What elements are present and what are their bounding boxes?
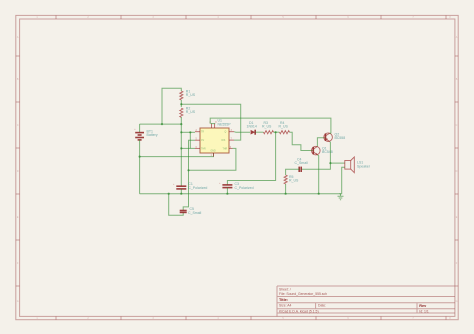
frame zone ticks left [16, 56, 20, 286]
svg-text:BC558: BC558 [335, 136, 346, 140]
svg-text:R_US: R_US [279, 124, 289, 128]
svg-text:R_US: R_US [289, 179, 299, 183]
transistor Q1 BC548 [312, 146, 333, 155]
wire battery minus down to ground rail [139, 140, 141, 194]
pin 7 DIS [229, 139, 234, 141]
svg-text:D: D [456, 170, 458, 173]
node junction TR/THR tie [189, 131, 191, 133]
wire R2 bottom through VCC rail down to C1 [180, 117, 182, 186]
wire up-left loop to R1 top [162, 88, 181, 124]
node junction Q2 emitter / speaker / C4 [329, 162, 331, 164]
svg-text:Id: 1/1: Id: 1/1 [419, 309, 429, 313]
pin 1 GND [213, 153, 215, 157]
resistor R5 [284, 175, 287, 184]
op-amp U1 555 timer body [200, 119, 231, 154]
svg-text:KiCad E.D.A. kicad (5.1.5): KiCad E.D.A. kicad (5.1.5) [279, 309, 319, 313]
svg-text:G: G [456, 300, 458, 303]
resistor R1 [180, 91, 183, 100]
resistor R2 [180, 108, 183, 117]
wire Q2 collector up to VCC line (drawn in VCC path) [330, 132, 331, 134]
svg-text:BC548: BC548 [322, 150, 333, 154]
svg-text:GND: GND [211, 151, 216, 153]
svg-text:Battery: Battery [147, 133, 158, 137]
title block box lines [277, 286, 455, 316]
svg-text:R_US: R_US [186, 93, 196, 97]
svg-text:THR: THR [201, 148, 206, 150]
wire THR net from C1 vertical to pin 6 [181, 147, 195, 149]
resistor R4 [280, 131, 290, 134]
wire Q1 collector up to Q2 base [317, 138, 325, 147]
node junction R2/rail [180, 123, 182, 125]
svg-text:C: C [456, 124, 458, 127]
pin 3 Q [229, 131, 234, 133]
wire speaker lower pin down to rail end [340, 167, 345, 193]
svg-text:C_Polarized: C_Polarized [235, 186, 254, 190]
battery BT1 [134, 124, 158, 140]
svg-text:C_Small: C_Small [295, 161, 308, 165]
wire pin 3 output to diode [234, 131, 250, 134]
wire right THR pin down loop to CV vertical [189, 148, 236, 170]
node junction R3/R4 [275, 131, 277, 133]
wire R3/R4 junction down and left to C2 [227, 132, 275, 184]
svg-text:C_Polarized: C_Polarized [188, 186, 207, 190]
wire R1/R2 junction to DIS pin 7 [181, 104, 240, 140]
wire CV pin 5 left then down to C5 [183, 140, 195, 210]
wire R3 to R4 [274, 131, 280, 133]
pin 6 THR right [229, 147, 233, 149]
node junction THR on C1 vertical [180, 147, 182, 149]
node junction TR on C1 vertical [180, 131, 182, 133]
wire C4 left to R5 top [286, 169, 300, 175]
wire Q1 emitter down to ground rail [318, 155, 319, 194]
wire R5 bottom to ground rail [285, 184, 287, 194]
pin 5 CV [195, 139, 200, 141]
wire C5 loop from rail down-around [169, 194, 184, 216]
wire C2 bottom to rail [226, 188, 228, 194]
node junction rail/Q1 emitter [318, 193, 320, 195]
svg-text:NE555P: NE555P [218, 123, 232, 127]
wire GND from pin1 to battery minus [140, 153, 214, 157]
node junction rail/R5 [285, 193, 287, 195]
svg-text:R_US: R_US [186, 110, 196, 114]
speaker LS1 [345, 157, 371, 173]
ground symbol [338, 194, 344, 200]
pin 4 R top [211, 124, 213, 129]
node junction rail/C1 [180, 193, 182, 195]
svg-text:File: Sound_Generator_555.sch: File: Sound_Generator_555.sch [279, 292, 327, 296]
svg-text:Title:: Title: [279, 298, 288, 302]
wire Q2 emitter down to speaker node [329, 142, 332, 164]
wire R4 staircase to Q1 base [290, 132, 314, 150]
pin 2 TR [195, 131, 200, 133]
wire C1 bottom to rail [180, 189, 182, 194]
pin 6 THR [195, 147, 200, 149]
svg-text:Speaker: Speaker [357, 164, 371, 168]
node junction R1/R2 [180, 103, 182, 105]
svg-text:Size: A4: Size: A4 [279, 304, 292, 308]
transistor Q2 BC558 [324, 133, 345, 142]
wire VCC rail from battery to R2 bottom [140, 123, 182, 125]
wire C4 branch down from node [301, 163, 330, 169]
capacitor C2 C_Polarized [219, 182, 254, 190]
svg-text:1N914: 1N914 [247, 124, 257, 128]
svg-text:Rev: Rev [419, 304, 427, 308]
capacitor C5 C_Small [180, 207, 202, 215]
wire R1 bottom to junction [180, 100, 182, 107]
wire node to speaker upper pin [330, 162, 344, 164]
resistor R3 [264, 131, 274, 134]
node junction VCC rail / R1 loop [161, 123, 163, 125]
wire VCC top line from IC pins 4/8 to Q2 collector [210, 118, 331, 133]
svg-text:C: C [17, 124, 19, 127]
node junction battery / gnd wire [139, 156, 141, 158]
node junction rail/C2 [226, 193, 228, 195]
svg-text:R_US: R_US [262, 124, 272, 128]
frame zone ticks bottom [56, 316, 446, 319]
node junction CV/DIS loop [187, 169, 189, 171]
svg-text:THR: THR [223, 148, 228, 150]
wire TR net from C1 vertical to pin 2 [181, 131, 195, 133]
svg-text:Date:: Date: [318, 304, 326, 308]
node junction rail/C5 loop [168, 193, 170, 195]
ground rail [140, 193, 341, 195]
frame zone ticks top [56, 15, 446, 19]
svg-text:TR: TR [201, 132, 204, 134]
diode D1 1N914 [247, 121, 257, 135]
pin 8 VCC top [214, 124, 216, 129]
frame zone ticks right [455, 56, 458, 286]
svg-text:C_Small: C_Small [188, 211, 201, 215]
wire diode to R3 [255, 131, 263, 133]
capacitor C1 C_Polarized [173, 182, 207, 190]
svg-text:D: D [17, 170, 19, 173]
wire TR-THR tie vertical [189, 132, 191, 148]
svg-text:DIS: DIS [222, 140, 226, 142]
svg-text:G: G [17, 300, 19, 303]
capacitor C4 C_Small [295, 158, 308, 172]
svg-text:CV: CV [201, 140, 205, 142]
svg-text:Q: Q [225, 132, 227, 134]
